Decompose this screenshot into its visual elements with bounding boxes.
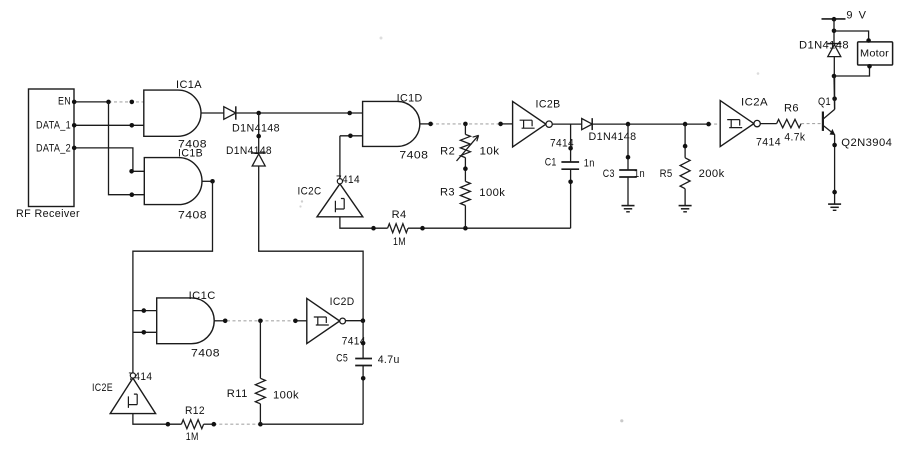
junction motor plus [866, 38, 871, 43]
junction left of R12 [166, 422, 171, 427]
arrow of variable resistor R2 [457, 135, 479, 161]
junction IC1C upper input [142, 308, 147, 313]
wire IC2D output [346, 320, 363, 322]
junction right of R4 [420, 226, 425, 231]
junction IC2D output node [361, 318, 366, 323]
junction near IC1D input [347, 111, 352, 116]
wire IC2C output up to IC1D [339, 136, 341, 178]
wire C1 bottom down [570, 169, 572, 228]
svg-text:4.7u: 4.7u [378, 354, 400, 366]
svg-text:RF Receiver: RF Receiver [16, 208, 80, 220]
svg-text:C3: C3 [603, 168, 615, 180]
svg-text:R3: R3 [440, 186, 455, 198]
svg-text:7414: 7414 [756, 137, 781, 149]
junction R11 bottom [258, 422, 263, 427]
diode D3 D1N4148 [582, 119, 593, 130]
wire IC1D output [420, 123, 431, 125]
wire IC1B output to IC1C inputs and IC2E output [133, 181, 213, 372]
wire R2 top stub [464, 124, 466, 134]
svg-text:D1N4148: D1N4148 [226, 145, 272, 157]
svg-text:R11: R11 [227, 388, 248, 400]
svg-text:IC2A: IC2A [741, 97, 768, 109]
transistor Q1 Q2N3904 [822, 112, 824, 131]
wire IC1B output [202, 180, 213, 182]
RF receiver block [29, 89, 75, 207]
wire R5 top stub [684, 124, 686, 158]
junction IC1C output [223, 319, 228, 324]
wire R4 to R3 bottom [408, 227, 571, 229]
wire R6 to Q1 base [801, 123, 823, 125]
resistor R2 variable [460, 134, 470, 157]
svg-text:EN: EN [58, 96, 71, 108]
wire DATA_2 to IC1B upper input [74, 148, 144, 171]
svg-text:DATA_2: DATA_2 [36, 143, 71, 155]
inverter IC2E 7414 pointing up [110, 378, 155, 414]
svg-text:7408: 7408 [191, 348, 220, 360]
wire IC2C input from R4 [340, 217, 388, 228]
wire junction down to D2 [258, 113, 260, 153]
junction below C5 [361, 376, 366, 381]
junction IC1B output [210, 179, 215, 184]
inverter IC2B 7414 [513, 101, 546, 146]
resistor R12 [181, 420, 203, 429]
inverter IC2D 7414 [307, 298, 340, 343]
junction node D1 out [256, 111, 261, 116]
junction EN pin [72, 100, 77, 105]
svg-text:IC2C: IC2C [298, 186, 322, 198]
wire D4 to collector node [833, 57, 835, 76]
diode D2 D1N4148 vertical [252, 154, 265, 166]
junction EN node B [130, 100, 135, 105]
power 9V bar [822, 18, 846, 20]
wire IC1C output [214, 320, 227, 322]
svg-text:4.7k: 4.7k [784, 132, 805, 144]
wire collector node down [833, 76, 836, 109]
junction IC1D output [428, 122, 433, 127]
diode D1 D1N4148 [224, 107, 236, 120]
svg-text:1M: 1M [186, 431, 199, 443]
diode D4 D1N4148 vertical [828, 45, 841, 57]
svg-text:R6: R6 [784, 103, 799, 115]
junction right of R12 [212, 422, 217, 427]
junction IC1C lower input [142, 330, 147, 335]
wire Q1 collector up [834, 76, 836, 109]
svg-text:100k: 100k [273, 390, 299, 402]
wire branch to motor bottom [834, 65, 870, 76]
wire branch to motor top [834, 31, 869, 42]
junction C3 top [626, 122, 631, 127]
wire 9V down [833, 19, 835, 44]
wire stub IC1C lower input [133, 331, 157, 333]
and-gate IC1A [144, 90, 201, 136]
junction R5 top [683, 122, 688, 127]
svg-text:1M: 1M [393, 236, 406, 248]
capacitor C1 branch wire [570, 124, 572, 162]
svg-text:IC2E: IC2E [92, 382, 113, 394]
and-gate IC1C [157, 298, 215, 344]
junction above D2 [256, 134, 261, 139]
ground R5 [679, 205, 692, 207]
wire R11 top segment [259, 321, 261, 379]
wire IC1D lower input [340, 135, 363, 137]
junction DATA_1 pin [72, 123, 77, 128]
junction IC1B lower input [130, 192, 135, 197]
svg-text:C5: C5 [336, 353, 348, 365]
svg-text:Q2N3904: Q2N3904 [841, 137, 892, 149]
junction motor bottom branch [832, 74, 837, 79]
junction DATA_2 pin [72, 146, 77, 151]
junction on C3 wire [626, 155, 631, 160]
svg-text:Motor: Motor [860, 48, 889, 60]
svg-text:1n: 1n [634, 168, 645, 180]
and-gate IC1D [363, 101, 420, 146]
wire IC2B output [552, 123, 581, 125]
wire IC2D node down to C5 [362, 321, 364, 359]
junction left of R4 [371, 226, 376, 231]
wire R3 bottom stub [464, 206, 466, 229]
svg-text:D1N4148: D1N4148 [799, 40, 849, 52]
resistor R5 [680, 158, 690, 189]
junction emitter node [832, 143, 837, 148]
speck [620, 419, 623, 422]
wire R2 to R3 [464, 158, 466, 182]
svg-text:R2: R2 [440, 145, 455, 157]
wire IC2A output [760, 123, 776, 125]
svg-text:7408: 7408 [399, 150, 428, 162]
and-gate IC1B [144, 158, 202, 205]
junction IC2B input [498, 122, 503, 127]
wire R5 to ground [684, 189, 686, 206]
svg-text:D1N4148: D1N4148 [589, 131, 637, 143]
svg-text:1n: 1n [584, 158, 595, 170]
speck [301, 200, 303, 202]
svg-text:IC1B: IC1B [178, 148, 203, 160]
wire EN to IC1A input [74, 101, 109, 103]
svg-text:D1N4148: D1N4148 [232, 123, 280, 135]
junction below C1 [568, 180, 573, 185]
svg-text:C1: C1 [545, 157, 557, 169]
junction 9V [832, 17, 837, 22]
junction IC1D lower input [348, 134, 353, 139]
resistor R6 [777, 119, 802, 127]
resistor R11 [255, 378, 265, 404]
svg-text:IC2D: IC2D [330, 296, 355, 308]
motor block [858, 42, 893, 65]
svg-text:Q1: Q1 [818, 96, 831, 108]
junction R3 bottom [463, 226, 468, 231]
junction R2 R3 [463, 166, 468, 171]
svg-text:IC1A: IC1A [176, 79, 202, 91]
wire D2 to IC2D output node [259, 166, 363, 321]
wire D3 to IC2A input [592, 123, 708, 125]
junction motor top branch [832, 29, 837, 34]
svg-text:200k: 200k [699, 168, 725, 180]
junction on R5 wire [683, 144, 688, 149]
junction R11 top [258, 319, 263, 324]
junction IC1B upper input [129, 169, 134, 174]
svg-text:DATA_1: DATA_1 [36, 119, 71, 131]
wire D1 to IC1D input [236, 112, 363, 114]
wire R12 to R11 bottom [204, 423, 214, 425]
wire DATA_1 to IC1A input [74, 124, 144, 126]
svg-text:IC1D: IC1D [397, 93, 423, 105]
junction DATA_1 node [130, 123, 135, 128]
inverter IC2C 7414 pointing up [317, 184, 363, 217]
capacitor C1 [561, 161, 579, 163]
svg-text:IC2B: IC2B [536, 99, 561, 111]
junction on C5 wire [361, 341, 366, 346]
resistor R4 [388, 224, 408, 233]
wire C3 to ground [627, 177, 629, 205]
capacitor C5 [355, 358, 372, 360]
junction above ground [832, 190, 837, 195]
junction motor minus [867, 64, 872, 69]
wire R11 bottom segment [259, 404, 261, 424]
junction EN node A [106, 100, 111, 105]
capacitor C3 branch wire [627, 124, 629, 170]
capacitor C3 [619, 169, 637, 171]
svg-text:R5: R5 [660, 168, 673, 180]
wire EN branch to IC1B lower input [109, 102, 145, 195]
wire IC1A output [201, 112, 224, 114]
ground Q1 emitter [828, 203, 841, 205]
resistor R3 [460, 181, 470, 205]
svg-text:100k: 100k [479, 187, 505, 199]
wire IC2E input from bottom wire [133, 414, 182, 425]
wire C5 down to bottom wire [362, 366, 364, 425]
wire stub IC1C upper input [133, 310, 157, 312]
wire Q1 emitter down [834, 135, 836, 204]
svg-text:9 V: 9 V [846, 10, 867, 22]
svg-text:R4: R4 [392, 209, 407, 221]
svg-text:R12: R12 [185, 405, 205, 417]
junction IC2A input [706, 122, 711, 127]
svg-text:IC1C: IC1C [189, 290, 216, 302]
svg-text:10k: 10k [480, 145, 500, 157]
ground C3 [622, 205, 635, 207]
inverter IC2A 7414 [720, 101, 754, 147]
speck [380, 37, 383, 40]
junction on C1 wire [568, 146, 573, 151]
junction IC2D input [293, 319, 298, 324]
junction R2 top [463, 122, 468, 127]
junction on collector [832, 96, 837, 101]
svg-text:7408: 7408 [178, 209, 207, 221]
wire bottom to C5 branch [260, 423, 363, 425]
